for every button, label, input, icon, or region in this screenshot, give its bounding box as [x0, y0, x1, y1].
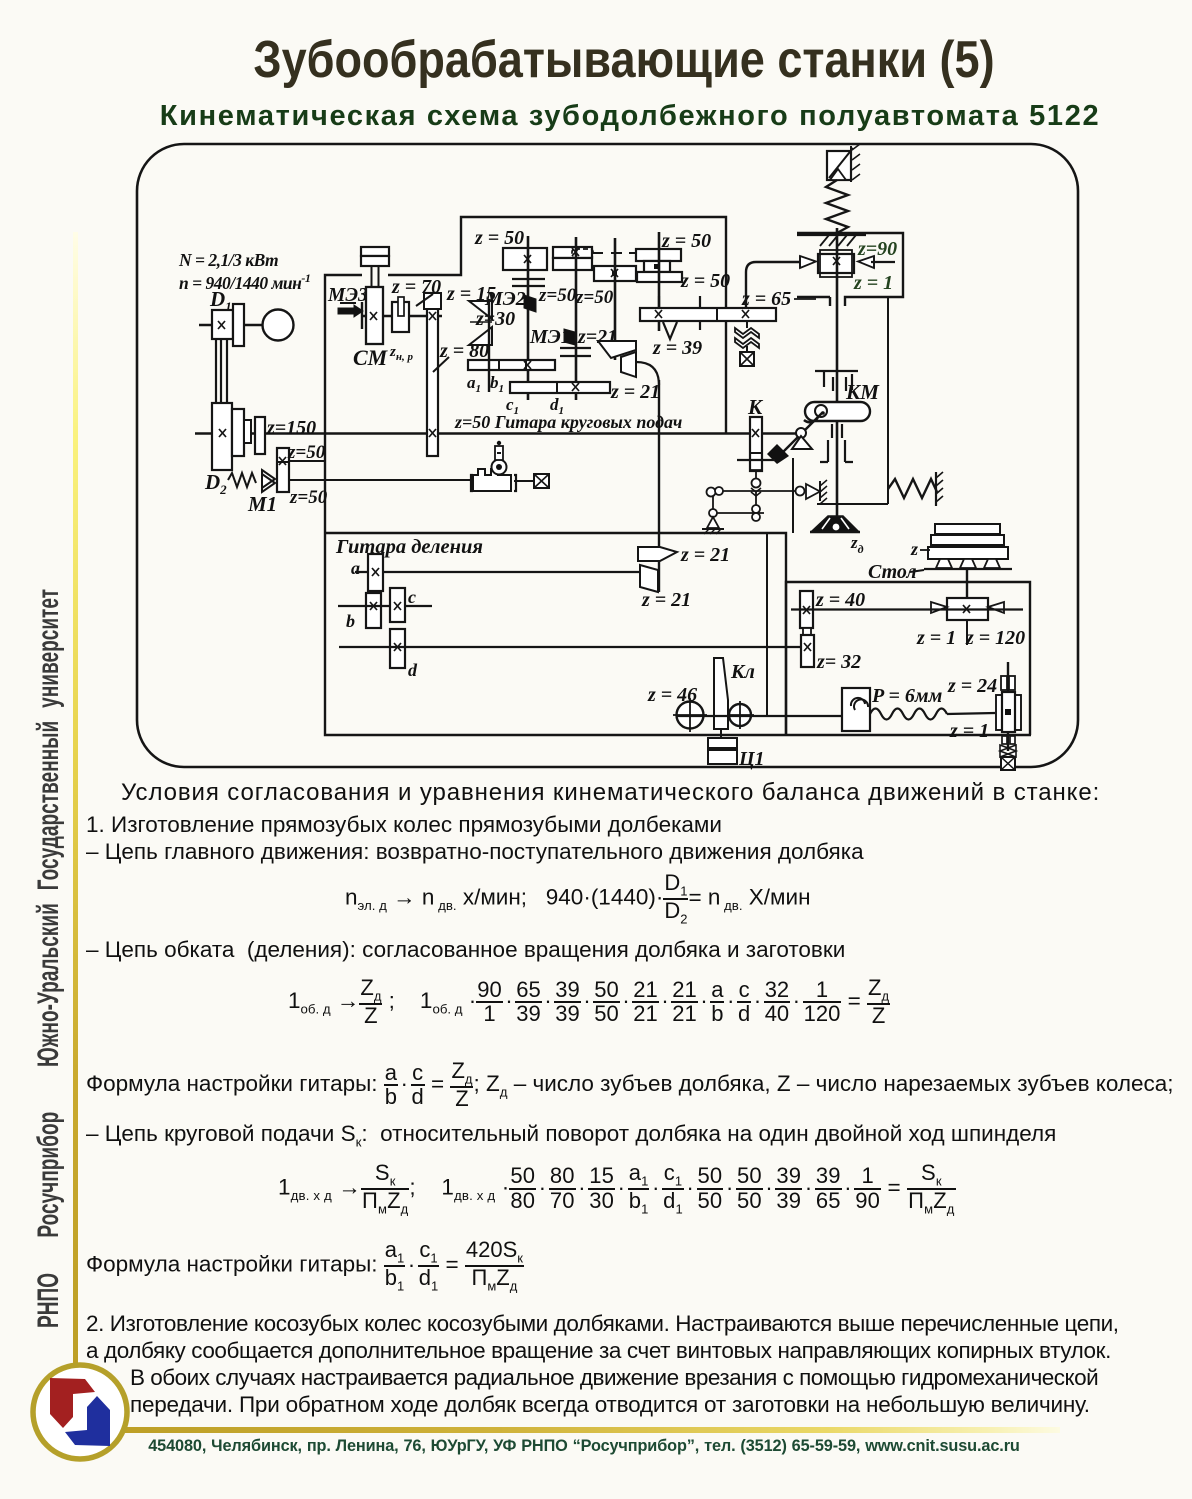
svg-text:z=50 Гитара круговых подач: z=50 Гитара круговых подач — [454, 412, 682, 432]
цепь круговой подачи — [86, 1121, 1056, 1150]
small gear z н.р — [389, 297, 413, 363]
tool foot (долбяк) — [810, 516, 864, 556]
cylinder Ц1 — [708, 729, 765, 770]
формула настройки гитары 2 — [86, 1239, 524, 1292]
diagram outer frame — [137, 144, 1078, 767]
spring bottom right — [888, 479, 937, 498]
arrow V z=39 — [652, 322, 702, 359]
clutch M1 arrows — [262, 470, 275, 492]
solenoid cap on СМ — [361, 247, 389, 288]
svg-text:z=30: z=30 — [475, 308, 515, 330]
spindle (долбяк) — [836, 228, 839, 516]
clutch plates S2 + МЭ1 — [529, 326, 617, 356]
svg-text:zн, р: zн, р — [389, 344, 413, 363]
wire: frame link right — [817, 297, 888, 504]
гитара деления box — [325, 533, 1031, 735]
equation 2 — [288, 977, 890, 1027]
svg-text:z = 40: z = 40 — [815, 589, 865, 611]
shaft S1 — [527, 236, 530, 400]
svg-text:z=50: z=50 — [538, 285, 577, 306]
gear z=50 top left — [474, 227, 547, 270]
svg-text:d: d — [408, 660, 418, 680]
pulley D1 — [209, 287, 244, 346]
svg-text:z = 39: z = 39 — [652, 337, 702, 359]
belt — [216, 339, 227, 403]
gear d — [390, 629, 418, 680]
address line — [0, 1437, 1168, 1456]
gear b — [346, 593, 381, 631]
equation 3 — [278, 1162, 956, 1215]
gear z=24 assembly — [947, 662, 1021, 770]
pivot right wall — [796, 480, 828, 504]
bevel pair гитара top — [638, 544, 730, 566]
table worm wheel z=1/z=120 — [914, 598, 1025, 649]
svg-text:z = 21: z = 21 — [680, 544, 730, 566]
subtitle — [40, 100, 1192, 133]
gear z=50 top right — [636, 230, 730, 292]
wire: x=767 down to Кл shaft — [766, 533, 768, 716]
equation 1 — [345, 872, 811, 925]
svg-text:b1: b1 — [490, 373, 504, 395]
svg-text:N = 2,1/3 кВт: N = 2,1/3 кВт — [178, 250, 278, 270]
electromagnet МЭ2 — [475, 288, 536, 330]
svg-text:b: b — [346, 611, 355, 631]
bevel pair гитара bottom — [640, 565, 691, 611]
anchor top — [827, 144, 860, 182]
machine housing outline (stepped box) — [325, 217, 726, 533]
worm gear z=90 / z=1 — [800, 238, 897, 294]
wire: main feed shaft — [195, 432, 800, 435]
gear c — [390, 587, 416, 622]
wire: shaft a — [355, 571, 640, 573]
svg-text:z = 120: z = 120 — [965, 627, 1025, 649]
gears a1 b1 — [467, 360, 555, 395]
wire: z40 shaft — [791, 608, 914, 610]
bevel pair center (on S3 bottom) — [598, 341, 636, 377]
svg-text:z = 1: z = 1 — [949, 720, 989, 742]
item 1 — [86, 812, 722, 838]
elbow from bevel to vertical S4 — [636, 362, 659, 385]
svg-text:z = 1: z = 1 — [916, 627, 956, 649]
svg-text:P = 6мм: P = 6мм — [871, 685, 943, 707]
ratchet under z65 — [735, 321, 759, 366]
svg-text:Гитара деления: Гитара деления — [335, 536, 483, 558]
gear z=150 — [255, 417, 316, 454]
wire: shaft bc — [338, 605, 432, 607]
формула настройки гитары 1 — [86, 1060, 1174, 1110]
gear a — [351, 554, 383, 591]
labels z=50 z=50 middle — [538, 285, 614, 308]
gold horizontal line — [122, 1427, 1060, 1433]
workpiece stack — [910, 524, 1012, 569]
screw drive box — [842, 688, 870, 731]
svg-text:z=150: z=150 — [266, 417, 316, 439]
shaft of bevel z15 — [488, 302, 490, 392]
svg-text:МЭ2: МЭ2 — [484, 288, 526, 310]
table drive box — [786, 582, 1030, 735]
screw clamp on feed shaft — [471, 441, 549, 491]
shaft S4 vertical — [658, 380, 660, 592]
shaft S3 dashed top — [592, 238, 639, 360]
title — [130, 29, 1119, 89]
svg-text:z = 21: z = 21 — [610, 381, 660, 403]
gear block z=50/z=50 — [277, 442, 328, 508]
svg-text:z = 24: z = 24 — [947, 675, 997, 697]
svg-text:z = 70: z = 70 — [391, 276, 441, 298]
svg-text:Кл: Кл — [730, 661, 755, 683]
chain of main motion — [86, 839, 864, 865]
wall for spring — [936, 472, 943, 506]
svg-text:Ц1: Ц1 — [738, 748, 765, 770]
svg-text:z=50: z=50 — [575, 287, 614, 308]
worm housing box — [797, 233, 903, 306]
pulley D2 — [204, 403, 251, 497]
svg-text:a: a — [351, 558, 360, 578]
clutch КМ — [805, 371, 880, 462]
sidebar text: университет — [32, 589, 66, 1067]
spring vertical — [826, 180, 848, 233]
svg-text:z=90: z=90 — [857, 238, 897, 260]
wire: worm input elbow — [746, 262, 802, 308]
gold vertical line — [73, 232, 78, 1367]
svg-text:a1: a1 — [467, 373, 481, 395]
svg-text:z=50: z=50 — [289, 487, 328, 508]
svg-text:c: c — [408, 587, 416, 607]
sidebar text: РНПО Росучприбор — [32, 1112, 66, 1328]
wire: z50 shafts to housing — [289, 461, 473, 480]
svg-text:n = 940/1440 мин-1: n = 940/1440 мин-1 — [179, 271, 310, 293]
gear z=46 wheels — [647, 684, 754, 732]
svg-text:К: К — [747, 395, 764, 419]
sliding block z=70 / z=80 — [391, 276, 489, 456]
linkage rods — [707, 470, 801, 521]
svg-text:z: z — [910, 539, 918, 559]
gear z=40 — [800, 589, 865, 636]
svg-text:z=50: z=50 — [287, 442, 326, 463]
wire: СМ shaft — [362, 315, 442, 317]
svg-text:Стол: Стол — [868, 561, 917, 583]
gear К — [737, 395, 775, 471]
wire: shaft d long — [339, 646, 801, 648]
center gear R3 — [594, 266, 636, 281]
clutch M1 spring — [228, 473, 256, 487]
pivot bottom — [702, 517, 724, 534]
logo РНПО — [27, 1359, 133, 1465]
clutch СМ — [353, 287, 389, 370]
gears c1 d1 bar — [506, 382, 610, 417]
paragraph 2 — [86, 1311, 1119, 1337]
wire: Кл shaft — [676, 715, 843, 717]
shaft cross marks — [218, 248, 970, 651]
lever with counterweight — [767, 412, 823, 464]
svg-text:М1: М1 — [247, 492, 277, 516]
svg-text:zд: zд — [850, 533, 864, 556]
svg-text:D2: D2 — [204, 470, 227, 497]
gear block S2 top — [553, 247, 593, 270]
long gear bar z=65 — [640, 288, 816, 330]
chain обката — [86, 937, 845, 963]
wedge Кл — [714, 658, 755, 729]
heading: условия согласования — [121, 779, 1100, 807]
svg-text:КМ: КМ — [845, 380, 880, 404]
svg-text:z = 1: z = 1 — [853, 272, 893, 294]
wire: frame link x=793 — [792, 458, 794, 533]
hatched ceiling — [797, 235, 866, 246]
svg-text:z = 21: z = 21 — [641, 589, 691, 611]
label Стол — [868, 561, 924, 583]
clutch plates S1 — [512, 279, 545, 286]
svg-text:СМ: СМ — [353, 345, 389, 370]
wire: table spindle — [966, 569, 968, 598]
svg-text:z= 32: z= 32 — [816, 651, 861, 673]
lead screw wavy — [870, 709, 995, 720]
electric motor D — [178, 250, 310, 341]
electromagnet МЭ3 arrow — [327, 285, 368, 317]
gear z=32 — [801, 635, 861, 673]
shaft S2 — [575, 237, 578, 400]
bevel pair z=15 — [446, 283, 496, 345]
svg-text:z = 50: z = 50 — [680, 270, 730, 292]
svg-text:z = 50: z = 50 — [474, 227, 524, 249]
shaft S5 — [658, 232, 661, 331]
svg-text:z = 65: z = 65 — [741, 288, 791, 310]
